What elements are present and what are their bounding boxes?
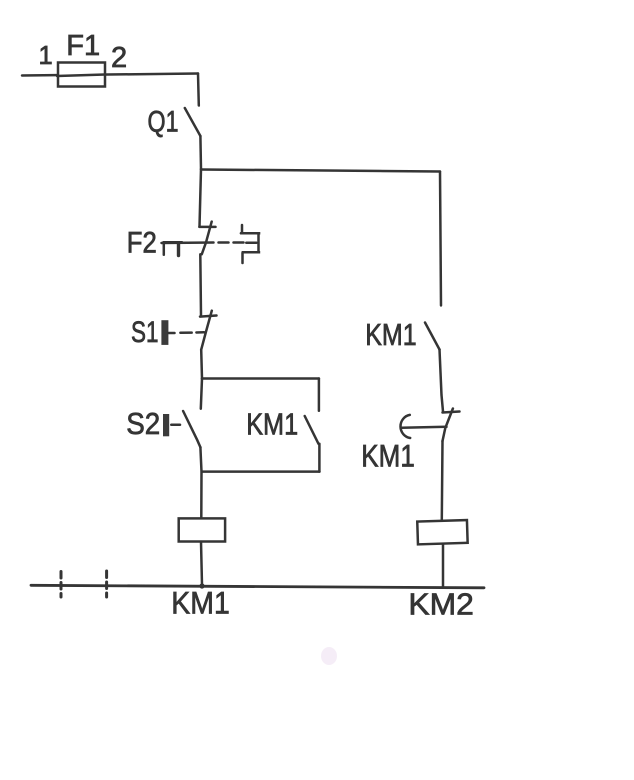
wire: Q1 to junction (199, 136, 202, 169)
bus break mark left (60, 572, 63, 598)
relay F2 actuator line dashed (219, 241, 244, 244)
wire: KM2 coil to bus (442, 545, 445, 588)
wire: S1 to junction (200, 350, 203, 379)
relay F2 trip device symbol (241, 225, 242, 233)
button S2 dashed link (171, 424, 180, 427)
svg-text:KM1: KM1 (246, 406, 298, 441)
svg-text:S1: S1 (131, 316, 159, 349)
contact KM1 NC actuator arc (400, 415, 410, 438)
svg-text:KM1: KM1 (365, 317, 417, 352)
wire: S2 to KM1 coil (200, 447, 201, 517)
svg-text:KM2: KM2 (408, 587, 474, 622)
bus break mark right (105, 571, 108, 597)
wire: down from fuse line (197, 74, 200, 106)
svg-text:Q1: Q1 (148, 106, 179, 139)
relay F2 actuator line solid (162, 241, 214, 244)
svg-text:F2: F2 (127, 227, 157, 260)
contact KM1 NC actuator link (402, 426, 447, 429)
switch Q1 blade (185, 108, 201, 136)
button S1 NC tick (200, 316, 217, 317)
scan smudge (321, 647, 337, 665)
wire: parallel branch bottom (202, 470, 320, 473)
fuse F1 (58, 63, 105, 87)
svg-text:F1: F1 (66, 30, 100, 62)
svg-text:1: 1 (39, 42, 53, 70)
contact KM1 NO blade (right column) (425, 323, 440, 350)
button S2 cap bar (163, 414, 169, 436)
wire: parallel branch right down (318, 379, 321, 411)
wire: right column down to KM1 NO contact (440, 172, 441, 306)
wire: parallel branch top (202, 377, 319, 380)
coil KM1 (179, 518, 225, 541)
wire: parallel right bottom (318, 444, 321, 472)
wire: horizontal branch to right column (201, 170, 440, 172)
svg-text:KM1: KM1 (361, 437, 415, 473)
relay F2 thermal element (164, 242, 182, 255)
wire: top feed through fuse (22, 74, 198, 76)
svg-text:S2: S2 (126, 407, 160, 441)
contact KM1 NC blade (443, 409, 453, 442)
button S2 blade (183, 411, 200, 447)
wire: junction down to F2 (200, 169, 202, 227)
wire: NC contact to KM2 coil (441, 441, 444, 520)
coil KM2 (417, 520, 467, 544)
relay F2 contact foot tick (199, 226, 215, 229)
wire: between right contacts (440, 350, 444, 412)
button S1 cap bar (161, 320, 168, 345)
button S1 dashed link (169, 332, 175, 335)
wire: KM1 coil to bus (201, 542, 202, 585)
junction: KM1 coil wire at bus (199, 583, 204, 588)
contact KM1 NC tick (443, 412, 460, 413)
svg-text:KM1: KM1 (171, 584, 230, 620)
wire: junction to S2 (201, 379, 202, 409)
svg-text:2: 2 (111, 42, 127, 74)
relay F2 contact blade (202, 222, 212, 255)
wire: F2 to S1 (199, 254, 202, 315)
contact KM1 aux blade (parallel) (305, 416, 319, 444)
button S1 blade (201, 311, 212, 350)
bus wire (bottom rail) (31, 585, 484, 588)
